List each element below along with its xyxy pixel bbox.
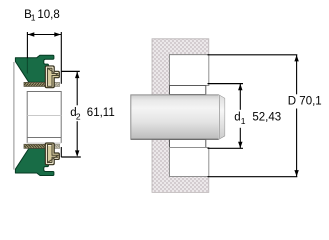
sleeve lower inner line — [27, 137, 61, 139]
svg-text:1: 1 — [241, 116, 246, 126]
dimension D extension line bottom — [208, 176, 298, 178]
housing lower block (stippled) — [152, 139, 209, 192]
lower insert inner highlight — [46, 146, 58, 164]
upper insert inner highlight — [46, 67, 58, 85]
lower seal seat recess outline — [170, 148, 209, 177]
dimension d2 tick bottom — [61, 156, 81, 158]
shaft end face — [219, 95, 225, 139]
sleeve centre line — [27, 115, 61, 117]
lower seal rubber body (green) — [15, 149, 54, 176]
lower metal insert (beige) — [45, 143, 59, 165]
housing upper block (stippled) — [152, 39, 209, 95]
dimension d2 tick top — [61, 70, 80, 72]
svg-text:52,43: 52,43 — [252, 112, 281, 124]
lower hatched sleeve section — [24, 144, 59, 148]
dimension d1 extension line top — [208, 83, 244, 85]
dimension D line upper segment — [296, 55, 298, 95]
svg-text:d: d — [234, 112, 240, 124]
lower seal group (mirror of upper) — [15, 143, 59, 176]
dimension d2 arrow up — [75, 72, 79, 78]
dimension d1 line upper segment — [239, 84, 241, 110]
dimension D extension line top — [208, 54, 298, 56]
sleeve bottom faint edge — [27, 142, 61, 144]
dimension B1 arrow left — [28, 32, 35, 36]
dimension d1 extension line bottom — [208, 147, 244, 149]
dimension B1 extension line left — [26, 32, 28, 58]
svg-text:1: 1 — [31, 13, 36, 23]
dimension d2 arrow down — [75, 150, 79, 156]
dimension d2 line upper segment — [76, 72, 78, 105]
svg-text:2: 2 — [76, 112, 81, 122]
seal outer face line — [13, 62, 15, 170]
shaft body — [131, 95, 225, 139]
seal bore sleeve outline — [27, 92, 61, 144]
dimension D label — [288, 96, 322, 108]
dimension d1 arrow down — [238, 142, 242, 148]
dimension B1 arrow right — [54, 32, 61, 36]
upper hatched sleeve section — [24, 82, 59, 86]
dimension D arrow up — [294, 55, 298, 61]
dimension d2 line lower segment — [76, 121, 78, 155]
upper seal seat recess outline — [170, 55, 209, 86]
svg-text:70,1: 70,1 — [299, 96, 321, 108]
dimension B1 line — [27, 34, 61, 36]
shaft bottom edge — [131, 138, 219, 140]
lower seat inner thin rect — [170, 140, 206, 148]
dimension d1 label — [234, 112, 281, 127]
svg-text:61,11: 61,11 — [87, 107, 115, 119]
dimension B1 extension line right — [60, 32, 62, 84]
dimension B1 label — [24, 9, 60, 23]
dimension D line lower segment — [296, 109, 298, 177]
upper metal insert (beige) — [45, 66, 59, 88]
dimension D arrow down — [294, 170, 298, 176]
upper seal rubber body (green) — [15, 55, 54, 82]
dimension d1 arrow up — [238, 84, 242, 90]
upper seat inner thin rect — [170, 86, 206, 95]
svg-text:10,8: 10,8 — [37, 9, 59, 21]
shaft chamfer line — [219, 95, 221, 139]
dimension d1 line lower segment — [239, 128, 241, 149]
dimension d2 label — [70, 107, 114, 122]
svg-text:D: D — [288, 96, 296, 108]
